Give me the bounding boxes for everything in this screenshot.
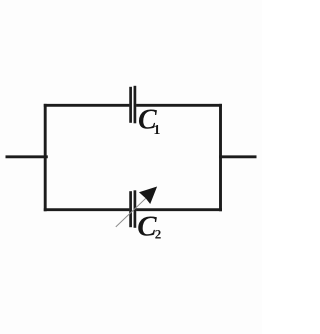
wire bottom-right segment [136,208,222,211]
wire top-right segment [136,104,222,107]
label C1 [138,104,160,138]
capacitor C2 plates [131,190,135,228]
label C2 [137,210,161,242]
variable-capacitor arrow shaft (C2) [116,198,147,227]
capacitor C1 plates [131,86,135,124]
wire right external lead [219,155,257,158]
wire bottom-left segment [44,208,130,211]
wire right vertical side [219,104,222,211]
wire left vertical side [44,104,47,211]
svg-text:1: 1 [153,123,160,138]
variable-capacitor arrowhead (C2) [139,187,157,205]
wire left external lead [6,155,48,158]
wire top-left segment [44,104,130,107]
svg-text:2: 2 [155,227,162,242]
